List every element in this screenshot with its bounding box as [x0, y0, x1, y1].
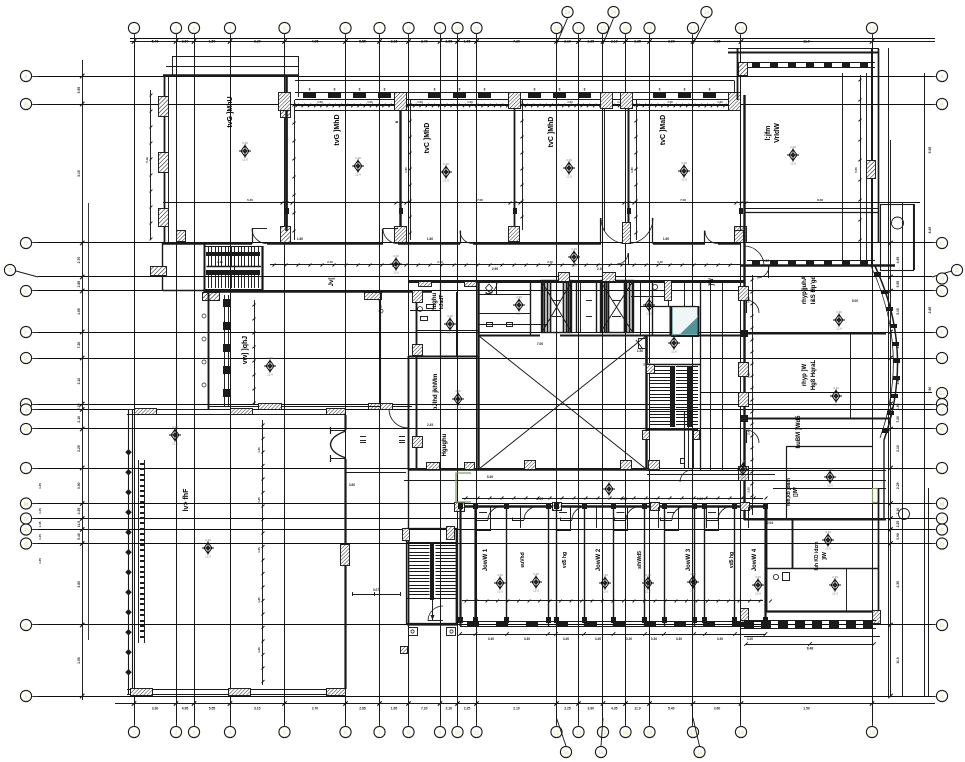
svg-text:huBM ]Wd5: huBM ]Wd5	[796, 415, 802, 449]
top-right block east wall	[867, 49, 879, 265]
interior dim marks 1	[297, 237, 858, 525]
svg-text:12.6: 12.6	[645, 590, 651, 594]
grid bubble V11 top	[471, 22, 482, 40]
grid line V5	[284, 40, 286, 722]
interior dim marks 2	[252, 75, 861, 515]
svg-text:2.40: 2.40	[547, 260, 553, 264]
grid line H12	[38, 503, 932, 505]
svg-text:8: 8	[309, 88, 311, 92]
svg-text:12.6: 12.6	[827, 484, 833, 488]
diamond marker D11	[202, 538, 214, 559]
svg-text:2.85: 2.85	[77, 281, 81, 288]
svg-text:G: G	[24, 356, 28, 362]
svg-text:3.30: 3.30	[790, 145, 796, 149]
svg-text:12.6: 12.6	[267, 373, 273, 377]
grid bubble H14 left	[20, 524, 38, 535]
diamond marker D19	[822, 530, 834, 551]
svg-text:18: 18	[738, 730, 744, 736]
diamond marker D26	[752, 575, 764, 596]
grid line V7	[379, 40, 381, 722]
wall pier hatched	[621, 93, 633, 109]
svg-text:1.20: 1.20	[697, 497, 703, 501]
svg-text:7.20: 7.20	[896, 416, 900, 423]
grid bubble H8 left	[20, 398, 38, 409]
svg-text:1a: 1a	[697, 750, 703, 756]
svg-text:3.30: 3.30	[254, 40, 261, 44]
grid bubble H17 left	[20, 690, 38, 701]
diamond marker D16	[833, 310, 845, 331]
grid line H15	[38, 543, 932, 545]
svg-text:1.80: 1.80	[427, 237, 433, 241]
svg-text:P: P	[24, 528, 28, 534]
svg-text:16: 16	[646, 730, 652, 736]
svg-text:3.30: 3.30	[205, 538, 211, 542]
svg-text:8: 8	[484, 88, 486, 92]
svg-text:rhyp ]W: rhyp ]W	[802, 364, 808, 387]
svg-text:tvC ]MaD: tvC ]MaD	[660, 115, 667, 145]
svg-text:8: 8	[534, 88, 536, 92]
svg-text:1.80: 1.80	[630, 167, 634, 173]
grid bubble H1 right	[932, 70, 948, 81]
svg-text:3.30: 3.30	[681, 161, 687, 165]
grid bubble V10 top	[452, 22, 463, 40]
svg-text:1.25: 1.25	[257, 447, 261, 453]
svg-text:3.30: 3.30	[516, 295, 522, 299]
wing pilasters	[739, 287, 749, 481]
diamond marker D8	[444, 314, 456, 335]
top-right block west wall lower	[741, 95, 745, 265]
svg-text:1.50: 1.50	[209, 40, 216, 44]
construction line x920	[924, 73, 926, 696]
svg-text:13: 13	[575, 730, 581, 736]
svg-text:1.50: 1.50	[417, 100, 423, 104]
svg-text:vd5 hg: vd5 hg	[729, 552, 735, 568]
grid bubble V19 bottom	[866, 722, 877, 738]
grid line H13	[38, 518, 932, 520]
svg-text:6: 6	[344, 730, 347, 736]
green tag right wing	[873, 489, 879, 503]
svg-text:12.6: 12.6	[172, 442, 178, 446]
svg-text:3.30: 3.30	[827, 467, 833, 471]
svg-text:1.80: 1.80	[404, 167, 408, 173]
svg-text:2.25: 2.25	[77, 403, 81, 410]
core fixtures right of E2	[631, 231, 744, 349]
top-left block east wall pilaster	[281, 101, 291, 243]
svg-text:3.30: 3.30	[497, 573, 503, 577]
core north wall y281	[408, 280, 744, 283]
grid line V16	[649, 40, 651, 722]
svg-text:2.10: 2.10	[564, 40, 571, 44]
svg-text:1.25: 1.25	[257, 547, 261, 553]
wall pier hatched	[509, 227, 520, 242]
grid line H16	[38, 624, 932, 626]
svg-text:JowW 3: JowW 3	[686, 548, 692, 571]
svg-text:tvG ]MhU: tvG ]MhU	[227, 96, 234, 127]
grid bubble V1 bottom	[128, 722, 139, 738]
svg-text:3.30: 3.30	[455, 389, 461, 393]
grid bubble H11 right	[932, 462, 948, 473]
classroom partition x286	[285, 99, 287, 231]
wing wall y418	[740, 415, 890, 422]
svg-text:1a: 1a	[704, 10, 710, 16]
grid bubble H9 left	[20, 404, 38, 415]
block interior dim column x151	[145, 90, 152, 240]
window mullion column x226	[202, 295, 230, 406]
svg-text:12.6: 12.6	[832, 592, 838, 596]
grid bubble V14 bottom	[597, 722, 608, 738]
svg-text:3.90: 3.90	[668, 40, 675, 44]
svg-text:A: A	[24, 74, 28, 80]
svg-text:E: E	[24, 289, 28, 295]
grid bubble H6 right	[932, 326, 948, 337]
svg-text:17: 17	[690, 730, 696, 736]
svg-text:1.65: 1.65	[896, 403, 900, 410]
wall pier hatched	[735, 227, 747, 243]
svg-text:3.30: 3.30	[755, 575, 761, 579]
svg-text:4.95: 4.95	[312, 40, 319, 44]
big hall west wall tick squares	[125, 449, 132, 676]
svg-text:3.90: 3.90	[77, 482, 81, 489]
svg-text:3.30: 3.30	[533, 572, 539, 576]
svg-text:3: 3	[192, 730, 195, 736]
top-left block north wall	[163, 74, 299, 77]
svg-text:1: 1	[132, 26, 135, 32]
diamond marker D22	[530, 572, 542, 593]
hall interior dim column x263	[257, 420, 265, 685]
svg-text:9: 9	[438, 730, 441, 736]
svg-text:D: D	[8, 268, 12, 274]
svg-text:5.18: 5.18	[145, 157, 149, 163]
svg-text:4.95: 4.95	[182, 707, 189, 711]
grid bubble V17 bottom	[687, 722, 698, 738]
corridor wall x408	[408, 470, 410, 529]
bottom-right block dim line	[744, 642, 876, 650]
svg-text:N: N	[940, 517, 944, 523]
diamond marker D6	[787, 145, 799, 166]
grid bubble H14 right	[932, 524, 948, 535]
diamond marker D24	[642, 573, 654, 594]
svg-text:3.30: 3.30	[833, 386, 839, 390]
svg-text:12.6: 12.6	[242, 158, 248, 162]
grid bubble H15 left	[20, 538, 38, 549]
diamond marker D17	[830, 386, 842, 407]
grid line H2	[38, 104, 932, 106]
wall y406 hatch segments	[209, 404, 412, 410]
classroom partition x629	[628, 99, 630, 231]
svg-text:2: 2	[174, 730, 177, 736]
svg-text:N: N	[24, 517, 28, 523]
svg-text:rhyp]juhA: rhyp]juhA	[802, 275, 808, 304]
wall pier hatched	[395, 93, 407, 111]
west wall x209	[208, 291, 210, 409]
svg-text:1.50: 1.50	[667, 100, 673, 104]
hall south wall y469	[408, 468, 647, 470]
svg-text:5.40: 5.40	[668, 707, 675, 711]
svg-text:1.50: 1.50	[637, 349, 643, 353]
svg-text:3.30: 3.30	[747, 487, 751, 493]
svg-text:3.30: 3.30	[825, 530, 831, 534]
svg-text:3.30: 3.30	[393, 254, 399, 258]
grid line V11	[476, 40, 478, 722]
svg-text:12.6: 12.6	[571, 264, 577, 268]
svg-text:12.6: 12.6	[671, 350, 677, 354]
diamond marker D25	[687, 572, 699, 593]
grid line V19	[872, 40, 874, 722]
grid bubble V2 top	[170, 22, 181, 40]
svg-text:1.50: 1.50	[77, 657, 81, 664]
svg-text:7.20: 7.20	[77, 342, 81, 349]
svg-text:1a: 1a	[598, 750, 604, 756]
classroom partition x401	[399, 99, 401, 231]
svg-text:Q: Q	[24, 542, 29, 548]
wall pier hatched	[395, 227, 407, 243]
svg-text:1.45: 1.45	[38, 534, 42, 540]
svg-text:12.6: 12.6	[755, 592, 761, 596]
svg-text:3.30: 3.30	[606, 479, 612, 483]
grid line V8	[408, 40, 410, 722]
dimension chain top	[130, 39, 935, 44]
diamond marker D3	[440, 162, 452, 183]
dorm top wall hatch piers	[455, 503, 750, 512]
svg-text:7.20: 7.20	[421, 707, 428, 711]
construction line x902	[902, 203, 904, 696]
grid line V12	[556, 40, 558, 722]
grid bubble H3 right	[932, 237, 948, 248]
diamond marker D1	[239, 141, 251, 162]
svg-text:2.48: 2.48	[747, 429, 751, 435]
svg-text:9: 9	[438, 26, 441, 32]
grid bubble H13 left	[20, 513, 38, 524]
svg-text:2.25: 2.25	[896, 482, 900, 489]
diamond marker D14	[668, 333, 680, 354]
svg-text:12.6: 12.6	[447, 331, 453, 335]
grid bubble V18 top	[735, 22, 746, 40]
svg-text:1.50: 1.50	[317, 100, 323, 104]
svg-text:7.20: 7.20	[513, 40, 520, 44]
svg-text:2.04: 2.04	[767, 521, 773, 525]
core west room partitions	[419, 282, 548, 336]
corridor west closure	[151, 243, 206, 291]
top-left block west wall pilasters	[159, 97, 169, 227]
svg-text:12.6: 12.6	[606, 496, 612, 500]
svg-text:VrIdW: VrIdW	[774, 123, 781, 143]
svg-text:14: 14	[600, 26, 607, 32]
svg-text:4.95: 4.95	[896, 257, 900, 264]
grid bubble H10 right	[932, 423, 948, 434]
diamond marker D13	[643, 295, 655, 316]
svg-text:2.40: 2.40	[327, 260, 333, 264]
svg-text:2.10: 2.10	[513, 707, 520, 711]
corridor south wall left y291	[205, 290, 432, 292]
grid line V3	[194, 40, 196, 722]
grid bubble V13 bottom	[573, 722, 584, 738]
grid bubble V3 top	[188, 22, 199, 40]
svg-text:3.15: 3.15	[77, 170, 81, 177]
stairs S2 lower landing dims	[352, 588, 401, 596]
grid bubble V3 bottom	[188, 722, 199, 738]
construction line y203	[163, 202, 920, 204]
svg-text:J1: J1	[939, 277, 945, 283]
grid bubble V15 bottom	[620, 722, 631, 738]
svg-text:3.07: 3.07	[373, 588, 379, 592]
grid bubble bottom offset	[693, 718, 705, 758]
svg-text:3.30: 3.30	[524, 637, 530, 641]
grid bubble H12 right	[932, 498, 948, 509]
svg-text:3.30: 3.30	[626, 637, 632, 641]
wall pier hatched	[621, 461, 632, 470]
top-right block north wall	[728, 49, 879, 53]
grid bubble H11 left	[20, 462, 38, 473]
diamond marker D4	[563, 158, 575, 179]
svg-text:s/hWd5: s/hWd5	[637, 551, 643, 569]
grid bubble H3 left	[20, 237, 38, 248]
svg-text:12.6: 12.6	[566, 175, 572, 179]
grid bubble H9 right	[932, 404, 948, 415]
svg-text:luh KD idzm: luh KD idzm	[814, 541, 820, 570]
diamond marker D9	[264, 356, 276, 377]
svg-text:3.60: 3.60	[714, 707, 721, 711]
corridor verticals x711 x722	[711, 281, 723, 470]
grid line H14	[38, 529, 932, 531]
svg-text:I&S Hp'gd: I&S Hp'gd	[811, 275, 817, 304]
grid bubble V1 top	[128, 22, 139, 40]
grid bubble V16 bottom	[644, 722, 655, 738]
grid line H3	[38, 242, 932, 244]
svg-text:[]lW: []lW	[793, 487, 799, 497]
grid line V6	[345, 40, 347, 722]
big hall north wall	[127, 409, 346, 415]
svg-text:12.6: 12.6	[602, 590, 608, 594]
grid bubble V9 top	[434, 22, 445, 40]
svg-text:Hgughu: Hgughu	[442, 433, 448, 456]
y203 dim ticks	[247, 198, 823, 214]
wing wall y446	[773, 446, 886, 519]
svg-text:4.35: 4.35	[611, 707, 618, 711]
svg-text:8.45: 8.45	[928, 227, 932, 234]
svg-text:vd5 hg: vd5 hg	[562, 552, 568, 568]
top-left block west wall	[165, 75, 169, 243]
svg-text:2.10: 2.10	[611, 40, 618, 44]
svg-text:3.30: 3.30	[566, 158, 572, 162]
svg-text:7.00: 7.00	[477, 198, 483, 202]
svg-text:12.6: 12.6	[497, 590, 503, 594]
grid line H10	[38, 428, 932, 430]
svg-text:1.20: 1.20	[763, 259, 769, 263]
dorm south wall with windows	[460, 621, 766, 627]
svg-text:5.40: 5.40	[77, 533, 81, 540]
grid bubble H1 left	[20, 70, 38, 81]
svg-text:2.40: 2.40	[657, 260, 663, 264]
svg-text:11: 11	[474, 730, 480, 736]
svg-text:hughu: hughu	[432, 293, 438, 312]
dorm bathroom partitions	[476, 507, 749, 531]
svg-text:3.30: 3.30	[651, 637, 657, 641]
svg-text:8: 8	[359, 88, 361, 92]
diamond marker D23	[599, 573, 611, 594]
classroom partition x515	[514, 99, 516, 231]
svg-text:Jv[: Jv[	[329, 278, 335, 287]
grid bubble bottom offset	[557, 718, 572, 758]
svg-text:7: 7	[378, 730, 381, 736]
corridor dim row y265	[217, 260, 740, 267]
svg-text:L: L	[24, 466, 28, 472]
grid bubble V9 bottom	[434, 722, 445, 738]
svg-text:11.9: 11.9	[634, 707, 641, 711]
svg-text:2.70: 2.70	[421, 40, 428, 44]
svg-text:2.85: 2.85	[359, 707, 366, 711]
svg-text:11: 11	[474, 26, 480, 32]
door leafs top rooms	[252, 228, 398, 230]
svg-text:3.30: 3.30	[676, 637, 682, 641]
svg-text:1.20: 1.20	[537, 497, 543, 501]
svg-text:5.40: 5.40	[152, 40, 159, 44]
svg-text:euVhd: euVhd	[520, 552, 526, 567]
svg-text:3.30: 3.30	[717, 637, 723, 641]
door arc vw room	[367, 292, 384, 313]
diamond marker D18	[824, 467, 836, 488]
grid bubble V4 top	[224, 22, 235, 40]
grid bubble V8 top	[403, 22, 414, 40]
svg-text:3.30: 3.30	[602, 573, 608, 577]
svg-text:C: C	[940, 241, 944, 247]
svg-text:3.30: 3.30	[443, 162, 449, 166]
svg-text:12.6: 12.6	[355, 173, 361, 177]
hall east wall x647	[645, 335, 647, 470]
svg-text:2.25: 2.25	[587, 40, 594, 44]
svg-text:K: K	[24, 427, 28, 433]
svg-text:2.85: 2.85	[928, 307, 932, 314]
dimension chain left	[77, 60, 89, 700]
svg-text:1: 1	[132, 730, 135, 736]
svg-text:8: 8	[434, 88, 436, 92]
grid line V18	[740, 40, 742, 722]
svg-text:7.00: 7.00	[680, 198, 686, 202]
svg-text:Q: Q	[940, 542, 945, 548]
svg-text:1.25: 1.25	[257, 597, 261, 603]
svg-text:JowW 2: JowW 2	[596, 548, 602, 571]
svg-text:1.25: 1.25	[257, 497, 261, 503]
svg-text:3.30: 3.30	[595, 637, 601, 641]
corridor north wall y243	[163, 242, 741, 244]
diamond marker D10	[452, 389, 464, 410]
grid bubble H4 right	[932, 264, 963, 284]
svg-text:S: S	[940, 694, 944, 700]
svg-text:1.50: 1.50	[367, 100, 373, 104]
svg-text:12.6: 12.6	[205, 555, 211, 559]
svg-text:2.10: 2.10	[597, 267, 603, 271]
svg-text:5.55: 5.55	[928, 147, 932, 154]
svg-text:l:jfm: l:jfm	[765, 126, 772, 141]
svg-text:10: 10	[454, 26, 460, 32]
svg-text:4.35: 4.35	[77, 508, 81, 515]
svg-text:3.30: 3.30	[747, 637, 753, 641]
wall pier hatched	[601, 93, 613, 109]
svg-text:J: J	[24, 408, 27, 414]
svg-text:E: E	[940, 289, 944, 295]
svg-text:Hg8 HqraL: Hg8 HqraL	[811, 360, 817, 391]
svg-text:11.9: 11.9	[803, 40, 810, 44]
door arc wing top	[757, 266, 769, 278]
grid bubble top offset	[693, 6, 712, 44]
svg-text:2.45: 2.45	[427, 423, 433, 427]
grid bubble bottom offset	[595, 718, 606, 758]
grid bubble V8 bottom	[403, 722, 414, 738]
grid bubble H16 right	[932, 619, 948, 630]
construction line x929	[928, 488, 930, 696]
svg-text:1a: 1a	[611, 10, 617, 16]
svg-text:]lW: ]lW	[822, 552, 828, 560]
svg-text:12.6: 12.6	[790, 162, 796, 166]
